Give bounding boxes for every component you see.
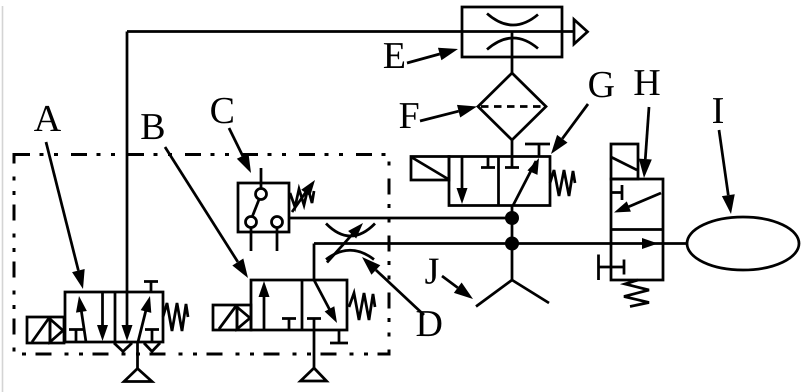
valve H body (3/2 valve vertical) (611, 179, 663, 280)
vacuum pad I (ellipse) (687, 217, 799, 270)
valve A exhaust line (136, 342, 139, 369)
label B leader arrow (165, 147, 253, 281)
label C leader arrow (229, 128, 257, 176)
label A leader arrow (46, 142, 89, 291)
valve G solenoid (411, 157, 449, 181)
valve G exhaust port T (525, 144, 550, 157)
valve A spring (163, 303, 188, 331)
label H leader arrow (638, 107, 652, 178)
valve B solenoid with pilot (213, 305, 251, 330)
filter F (478, 73, 546, 140)
valve A right up arrow (138, 295, 155, 342)
valve B exhaust triangle (301, 368, 327, 381)
pressure switch C (238, 168, 289, 251)
valve A left down arrow (97, 292, 108, 341)
valve A solenoid with pilot (27, 317, 64, 343)
label E (384, 43, 404, 68)
junction node 1 (505, 211, 519, 225)
valve G left position down arrow (457, 157, 468, 205)
junction node 2 (505, 237, 519, 251)
wire: filter F to valve G (511, 140, 514, 157)
label H (634, 70, 659, 95)
valve A left up arrow (74, 295, 87, 342)
valve G body (3/2 solenoid valve) (449, 157, 550, 206)
label D (417, 311, 442, 336)
page edge artifact line (2, 6, 4, 392)
throttle valve D (adjustable restrictor) (326, 219, 375, 262)
label F leader arrow (420, 100, 479, 121)
valve A exhaust V right (144, 343, 160, 352)
label D leader arrow (358, 252, 424, 315)
label J leader arrow (442, 276, 477, 304)
label C (211, 98, 233, 124)
valve B right position diagonal arrow (314, 280, 342, 326)
valve G blocked port 1 (481, 157, 495, 168)
Y branch J (476, 280, 549, 307)
valve B blocked exhaust below (330, 330, 348, 343)
wire: left vertical line down to valve A (126, 32, 129, 293)
valve A body (5/2 solenoid valve) (65, 292, 163, 342)
valve G right position diagonal arrow (513, 156, 544, 206)
vacuum ejector E (462, 7, 562, 73)
wire: top supply line from node to ejector E (127, 30, 462, 33)
valve H exhaust port (599, 255, 625, 281)
E output arrow (open triangle) (562, 20, 588, 45)
label B (141, 114, 163, 139)
valve B body (3/2 solenoid valve) (251, 280, 347, 330)
valve B left blocked port (282, 319, 296, 331)
label G leader arrow (546, 104, 588, 158)
valve H top blocked port (611, 185, 622, 200)
valve A bottom-left blocked port (69, 330, 83, 343)
pressure switch C adjustment arrow (292, 177, 319, 212)
wire: vacuum line to valve H and pad I (314, 242, 687, 245)
valve H solenoid (611, 144, 638, 179)
valve A exhaust triangle (124, 369, 152, 382)
valve A bottom-right blocked port (145, 330, 159, 343)
label I leader arrow (719, 130, 737, 215)
label E leader arrow (407, 43, 460, 63)
wire: corner down to valve B (313, 244, 316, 281)
label G (589, 72, 614, 98)
valve H top diagonal arrow (612, 193, 661, 218)
label I (713, 98, 723, 123)
dash-dot enclosure border (14, 155, 389, 355)
valve B spring (349, 293, 375, 320)
valve A exhaust V left (114, 343, 132, 352)
valve B left position up arrow (259, 281, 270, 330)
pressure switch C spring (290, 188, 314, 207)
valve H through-flow arrow (642, 238, 658, 249)
wire: pressure line from switch C to junction (289, 217, 512, 220)
valve G blocked port 2 (505, 157, 519, 168)
valve H spring (624, 280, 649, 307)
label F (400, 103, 419, 128)
valve A top-right port T (144, 282, 158, 293)
valve B right port with exhaust stem (307, 319, 321, 369)
label J (425, 259, 438, 284)
valve G spring (550, 170, 575, 196)
label A (34, 106, 61, 131)
valve A right down arrow (122, 292, 133, 341)
wire: valve G down through junctions (511, 206, 514, 281)
